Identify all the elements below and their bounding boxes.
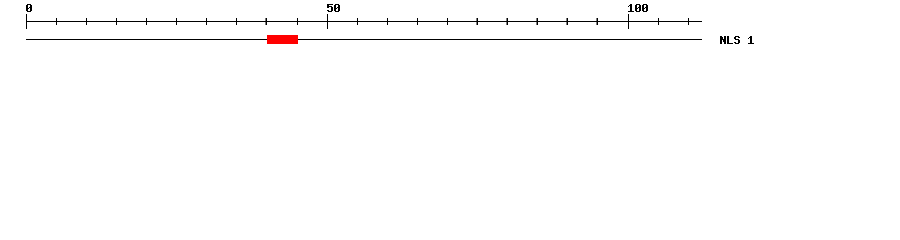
background (0, 0, 900, 58)
minor tick 30 (206, 18, 207, 25)
NLS feature box (red) (267, 35, 298, 44)
minor tick 110 (688, 18, 689, 25)
minor tick 35 (236, 18, 237, 25)
protein backbone line (26, 39, 702, 40)
minor tick 80 (506, 18, 507, 25)
minor tick 75 (476, 18, 477, 25)
tick label 50 (327, 4, 340, 12)
minor tick 105 (658, 18, 659, 25)
major tick 100 (628, 14, 629, 29)
major tick 50 (327, 14, 328, 29)
minor tick 20 (146, 18, 147, 25)
major tick 0 (26, 14, 27, 29)
minor tick 5 (56, 18, 57, 25)
minor tick 70 (447, 18, 448, 25)
minor tick 15 (116, 18, 117, 25)
minor tick 45 (297, 18, 298, 25)
tick label 0 (26, 4, 32, 12)
minor tick 65 (417, 18, 418, 25)
ruler axis line (26, 21, 702, 22)
tick label 100 (628, 4, 648, 12)
minor tick 85 (536, 18, 537, 25)
minor tick 55 (357, 18, 358, 25)
minor tick 25 (176, 18, 177, 25)
minor tick 60 (387, 18, 388, 25)
minor tick 90 (566, 18, 567, 25)
minor tick 95 (596, 18, 597, 25)
minor tick 10 (86, 18, 87, 25)
minor tick 40 (265, 18, 266, 25)
feature label NLS 1 (720, 36, 754, 44)
